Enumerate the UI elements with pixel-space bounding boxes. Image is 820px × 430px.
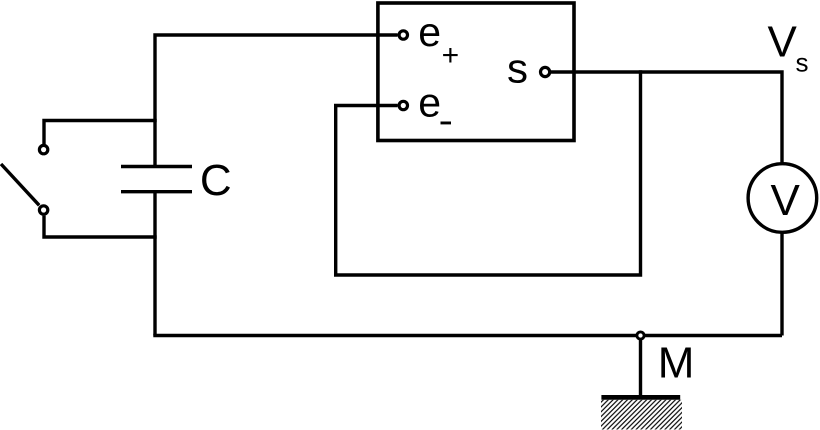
wire: feedback from s rail to e- terminal (336, 70, 641, 275)
switch upper contact (39, 145, 47, 153)
terminal e- (399, 101, 407, 109)
wire: ground stub (639, 340, 642, 396)
svg-text:s: s (796, 48, 809, 78)
svg-text:V: V (771, 176, 801, 225)
terminal e+ (399, 31, 407, 39)
wire: switch lower branch (44, 216, 157, 237)
capacitor C (121, 167, 192, 192)
wire: e+ input from left rail to e+ terminal (155, 35, 398, 167)
wire: s output to voltmeter top (551, 72, 782, 164)
svg-text:V: V (768, 18, 798, 67)
svg-text:M: M (658, 338, 695, 387)
svg-text:e: e (418, 80, 441, 126)
svg-text:s: s (507, 45, 528, 92)
switch lower contact (39, 206, 47, 214)
wire: switch upper branch (44, 121, 157, 145)
ground bar (601, 395, 680, 400)
terminal s (541, 67, 550, 76)
svg-text:C: C (200, 156, 232, 205)
amplifier box U1 (378, 3, 574, 141)
svg-text:+: + (442, 39, 460, 72)
wire: left rail below capacitor to bottom rail (153, 192, 156, 336)
switch blade (1, 164, 39, 205)
node M junction (637, 332, 644, 339)
voltmeter V (748, 164, 817, 233)
wire: voltmeter bottom to bottom rail (780, 232, 783, 336)
svg-text:e: e (418, 9, 441, 55)
wire: bottom rail (153, 334, 782, 337)
ground hatching (601, 400, 682, 430)
